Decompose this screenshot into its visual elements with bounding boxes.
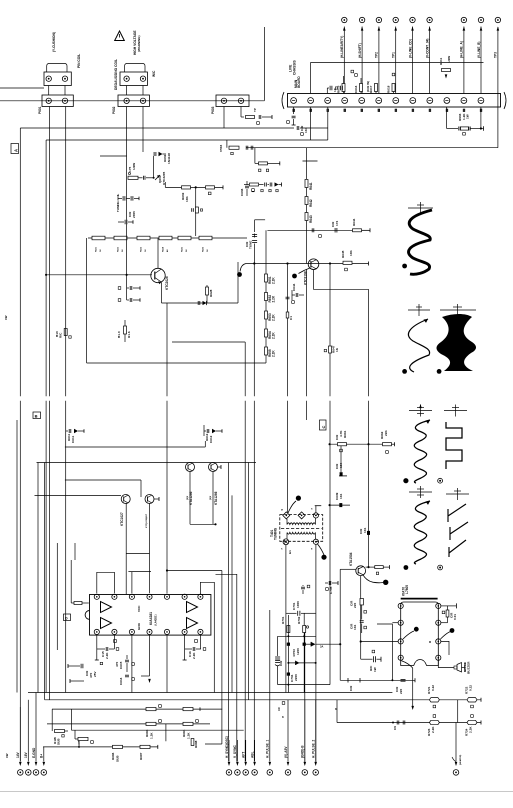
capacitor C649 — [334, 228, 336, 233]
svg-text:TUNE: TUNE — [249, 241, 253, 249]
capacitor C642 t-top — [255, 219, 266, 221]
capacitor C711 — [442, 611, 445, 614]
svg-text:KTC2026: KTC2026 — [165, 276, 169, 290]
svg-text:X: X — [281, 549, 283, 551]
op-amp triangle 1 — [101, 602, 112, 613]
svg-text:2.2K: 2.2K — [469, 726, 473, 733]
svg-text:0.22: 0.22 — [431, 685, 435, 691]
resistor R603 — [206, 186, 215, 189]
capacitor C902 — [292, 115, 296, 117]
wire x167 down — [166, 303, 168, 396]
capacitor C701 — [286, 612, 296, 614]
wire from bus147 to x306 — [306, 148, 308, 161]
resistor R643 — [305, 213, 308, 221]
svg-text:KTA1266: KTA1266 — [189, 491, 193, 505]
svg-text:470: 470 — [115, 662, 119, 667]
wire net y636.3 — [278, 635, 316, 637]
svg-text:2.2K: 2.2K — [431, 726, 435, 733]
svg-text:104: 104 — [363, 528, 367, 533]
svg-text:TUNING COIL: TUNING COIL — [116, 194, 120, 212]
resistor R724 — [467, 720, 477, 724]
capacitor C645 — [286, 296, 290, 298]
resistor R697 — [140, 745, 150, 748]
svg-text:1K: 1K — [100, 249, 102, 252]
resistor R616 — [360, 84, 363, 92]
vertical regulator IC701 — [401, 599, 439, 666]
wire loop right pin7 — [200, 582, 214, 692]
svg-text:R694: R694 — [182, 729, 186, 737]
svg-text:2.2K: 2.2K — [272, 314, 276, 321]
component row y184.5 — [244, 184, 249, 186]
wire long vertical x65.7 — [65, 107, 67, 397]
wire IC701 pin4 curve — [402, 661, 413, 668]
waveform W7 sawtooth — [448, 504, 468, 557]
resistor R652 — [265, 293, 268, 301]
capacitor C706 top — [301, 586, 305, 588]
IC601 bottom pin 12 — [164, 629, 169, 634]
svg-text:E-GND: E-GND — [32, 747, 36, 758]
wire vertical x57.3 — [56, 543, 58, 650]
wire q602 collector — [157, 238, 159, 268]
svg-text:1K: 1K — [207, 249, 209, 252]
svg-text:V503: V503 — [219, 144, 223, 152]
IC601 bottom pin 14 — [198, 629, 203, 634]
svg-text:R697: R697 — [139, 752, 143, 760]
svg-text:C606: C606 — [240, 188, 244, 196]
wire net y462.5 — [37, 462, 257, 464]
svg-text:2.2K: 2.2K — [272, 350, 276, 357]
terminal HEATER — [455, 723, 457, 762]
hook to dot — [240, 264, 246, 272]
svg-text:R621: R621 — [96, 246, 98, 252]
svg-text:R623: R623 — [141, 246, 143, 252]
wire q613 down — [125, 504, 127, 595]
strip pin 10 — [444, 98, 450, 104]
svg-text:C644: C644 — [292, 283, 296, 291]
waveform W5 square — [446, 422, 462, 469]
wire pin2 riser — [310, 62, 312, 93]
svg-text:TUNING: TUNING — [274, 527, 278, 540]
wire net y480 — [65, 479, 141, 481]
wire bus y692.5 — [28, 692, 392, 694]
waveform W6 sine — [414, 501, 430, 564]
resistor R722 — [467, 698, 477, 702]
IC601 bottom pin 11 — [147, 629, 152, 634]
capacitor C616 — [125, 674, 129, 676]
scope dot 3 — [437, 369, 442, 374]
svg-text:SUB: SUB — [116, 755, 120, 762]
wire x288 down — [287, 615, 289, 693]
svg-text:C: C — [321, 426, 326, 429]
terminal 14V — [16, 707, 23, 775]
svg-text:TP1: TP1 — [392, 52, 396, 58]
strip pin 12 — [478, 98, 484, 104]
curl to dot q604 — [299, 268, 311, 274]
junction squares — [287, 643, 290, 646]
scope marker 2 — [408, 309, 430, 311]
capacitor C601 — [296, 126, 298, 130]
boxed label C — [320, 420, 327, 430]
svg-text:H_PULSE_1: H_PULSE_1 — [266, 740, 270, 758]
wire vertical x38 — [37, 463, 39, 693]
terminal B+ — [40, 747, 47, 775]
scope marker 6 — [409, 491, 432, 493]
strip pin 8 — [410, 98, 416, 104]
resistor R625 — [178, 236, 191, 240]
wire vert x153.6 — [153, 156, 155, 178]
capacitor C643 pair — [252, 234, 257, 236]
transistor Q612 — [209, 463, 218, 472]
svg-text:2.2K: 2.2K — [192, 652, 196, 659]
resistor R691 — [146, 708, 156, 711]
svg-text:B+: B+ — [40, 754, 44, 758]
svg-text:C611: C611 — [71, 435, 75, 443]
wire q704 base — [340, 568, 356, 570]
svg-text:2K: 2K — [122, 249, 124, 252]
svg-text:1K: 1K — [145, 249, 147, 252]
label B pin marks — [114, 640, 117, 643]
wire x195.7 down — [195, 187, 197, 236]
svg-text:TP2: TP2 — [375, 52, 379, 58]
resistor R602 — [182, 186, 191, 189]
svg-text:C9: C9 — [393, 726, 397, 730]
svg-text:(V)-A5V: (V)-A5V — [284, 746, 288, 758]
wire bus y746.9 — [43, 746, 158, 748]
svg-text:R702: R702 — [297, 616, 301, 624]
connector P602 DEGAUSSING COIL — [118, 64, 149, 107]
capacitor C681 — [105, 647, 107, 651]
svg-text:25V: 25V — [93, 671, 97, 677]
svg-text:H_PULSE_2: H_PULSE_2 — [312, 740, 316, 758]
svg-text:R626: R626 — [203, 246, 205, 252]
wire long vertical x49.6 — [49, 107, 51, 397]
svg-text:W/C: W/C — [152, 70, 156, 77]
wire left col x86.6 — [86, 238, 88, 363]
transistor Q613 — [121, 495, 130, 504]
svg-text:( LA4282 ): ( LA4282 ) — [155, 614, 158, 626]
svg-text:1W: 1W — [5, 753, 9, 758]
resistor R661 — [338, 443, 347, 446]
svg-text:M: M — [281, 510, 283, 512]
wire main bus y=100.8 — [0, 100, 264, 102]
svg-text:CHASSIS: CHASSIS — [293, 60, 297, 75]
capacitor cluster C606 — [245, 185, 249, 187]
svg-text:(H-SHIFT): (H-SHIFT) — [358, 43, 362, 58]
wire stub y156 — [100, 155, 127, 157]
capacitor C668 — [367, 531, 369, 534]
wires terminals to strip — [343, 27, 345, 94]
resistor R630 on x65.7 — [64, 329, 67, 336]
svg-text:220: 220 — [353, 603, 357, 608]
svg-text:R641: R641 — [309, 182, 313, 190]
svg-text:2.2K: 2.2K — [272, 295, 276, 302]
resistor R642 — [305, 197, 308, 205]
svg-text:1.2K: 1.2K — [187, 732, 191, 739]
diode cluster D612 — [206, 429, 208, 433]
wire left drop from P602 — [142, 107, 144, 153]
terminal H_PULSE_1 — [266, 610, 273, 775]
svg-text:10K: 10K — [185, 196, 189, 202]
svg-text:(S)V: (S)V — [210, 495, 212, 500]
resistor R696 — [113, 745, 123, 748]
strip pin 11 — [461, 98, 467, 104]
strip pin 3 — [325, 98, 331, 104]
resistor R723 — [429, 720, 439, 724]
page edge line — [0, 791, 513, 793]
svg-text:(V-LINE_CD): (V-LINE_CD) — [408, 39, 412, 58]
svg-text:200V: 200V — [132, 210, 136, 218]
wire vertical x44.6 — [44, 463, 46, 700]
svg-text:R625: R625 — [182, 246, 184, 252]
svg-text:104: 104 — [353, 625, 357, 630]
t-cap cluster left of network — [392, 679, 415, 681]
resistor R704 — [375, 566, 384, 569]
capacitor C615 — [125, 659, 129, 661]
resistor R903 — [446, 107, 448, 129]
IC601 bottom pin 8 — [94, 629, 99, 634]
terminal (V)-A5V — [284, 700, 291, 775]
strip pin 7 — [393, 98, 399, 104]
capacitor cluster over strip — [329, 86, 331, 91]
resistor R611 — [442, 69, 451, 72]
wire y187.4 — [165, 186, 223, 188]
svg-text:(WARNING): (WARNING) — [137, 36, 141, 53]
waveform W4 sine — [414, 420, 430, 483]
wire t-top x306 — [303, 160, 318, 162]
svg-text:1W: 1W — [4, 315, 8, 320]
svg-text:C612: C612 — [209, 435, 213, 443]
diode cluster D611 — [68, 429, 70, 433]
svg-text:P602: P602 — [112, 106, 116, 114]
wire bus y730.2 — [72, 729, 244, 731]
wire right edge drop — [497, 27, 499, 148]
connector P601 PIN COIL — [42, 64, 73, 107]
wire ic loop top — [97, 572, 115, 593]
boxed label B — [33, 412, 41, 419]
svg-text:R1.6: R1.6 — [127, 331, 131, 338]
capacitor C617 left cluster — [67, 664, 69, 668]
transistor Q601 — [155, 175, 160, 180]
resistor R624 — [159, 236, 172, 240]
capacitor C613 — [129, 298, 131, 302]
wire q613 q614 merge — [126, 553, 150, 555]
svg-text:172: 172 — [335, 221, 339, 226]
terminal AFT — [242, 740, 249, 775]
svg-text:2.2K: 2.2K — [272, 332, 276, 339]
svg-text:104: 104 — [339, 494, 343, 499]
wire bus y236 — [88, 237, 247, 239]
capacitor C705 — [328, 581, 330, 585]
svg-text:TP: TP — [253, 108, 257, 112]
terminal H_SYNC(OSC) — [225, 736, 232, 775]
svg-text:ABL: ABL — [250, 751, 254, 758]
svg-text:DEGAUSSING COIL: DEGAUSSING COIL — [114, 59, 118, 90]
capacitor C605 — [245, 146, 247, 150]
svg-text:H_SYNC(OSC): H_SYNC(OSC) — [225, 736, 229, 758]
wire long vertical x46.1 — [45, 140, 47, 396]
top terminal row — [340, 17, 500, 58]
svg-text:KTC(LOW)027: KTC(LOW)027 — [146, 513, 148, 528]
wire IC701 left net — [377, 624, 392, 680]
wire stub — [343, 92, 345, 94]
op-amp triangle 3 — [187, 602, 198, 613]
resistor R702 — [303, 626, 306, 633]
resistor R622 — [114, 236, 127, 240]
svg-text:C1: C1 — [289, 316, 293, 320]
svg-text:VCC: VCC — [137, 605, 141, 612]
svg-text:1200: 1200 — [296, 648, 300, 655]
resistor chain x266 — [265, 230, 267, 274]
connector P603 — [216, 95, 249, 107]
scope marker 4 — [409, 410, 432, 412]
t-cap widget left — [347, 678, 349, 683]
wire bus y699 right end — [480, 698, 482, 702]
capacitor C641 — [311, 228, 313, 232]
resistor R694b loop — [51, 709, 53, 731]
wire riser x264.4 — [263, 27, 265, 101]
diode D602 — [153, 152, 155, 156]
transistor Q611 — [186, 463, 195, 472]
waveform W3 filled — [437, 314, 477, 371]
wire vert x125 — [126, 107, 128, 237]
resistor R662 — [383, 443, 392, 446]
wire riser to strip pin — [327, 107, 329, 140]
resistor R721 — [429, 698, 439, 702]
transistor Q602 — [151, 268, 165, 282]
IC701 right pin 7 — [436, 639, 441, 644]
svg-text:KTC1027: KTC1027 — [120, 512, 124, 526]
resistor R615 — [342, 84, 345, 92]
resistor R606 — [255, 162, 259, 164]
wire IC701 pin5 right T — [441, 605, 456, 607]
scope dot 1 — [402, 264, 407, 269]
IC701 right pin 6 — [436, 620, 441, 625]
svg-text:220: 220 — [399, 689, 403, 694]
diode D701 — [304, 643, 311, 645]
transistor Q604 — [308, 259, 319, 270]
svg-text:R661: R661 — [343, 430, 347, 438]
svg-text:(Y-CUSHION): (Y-CUSHION) — [52, 32, 56, 52]
svg-text:R693: R693 — [145, 729, 149, 737]
wire q704 down — [360, 576, 362, 642]
capacitor C703 — [277, 636, 279, 656]
scope dot 5 — [438, 478, 443, 483]
resistor R617 — [375, 84, 378, 92]
resistor R631 — [124, 326, 127, 334]
capacitor C612 — [129, 286, 131, 290]
wire q602 base long — [46, 274, 152, 276]
waveform W2 sine — [408, 319, 429, 372]
wire loop x222 — [205, 743, 222, 745]
scope dot 6 — [404, 565, 409, 570]
svg-text:(C/R W): (C/R W) — [366, 81, 370, 92]
capacitor C604 — [258, 115, 260, 119]
svg-text:(H-LINE_A): (H-LINE_A) — [460, 41, 464, 58]
scope dot 4 — [403, 478, 408, 483]
wire col x253 — [253, 264, 255, 397]
svg-text:10K: 10K — [349, 250, 353, 256]
svg-text:22K: 22K — [384, 430, 388, 436]
terminal V_SYNC — [233, 740, 240, 775]
IC701 left pin 2 — [398, 620, 403, 625]
svg-text:R622: R622 — [118, 246, 120, 252]
svg-text:R642: R642 — [309, 199, 313, 207]
wire net y495.4 — [35, 494, 122, 496]
wire pin2 down-left — [310, 107, 312, 140]
wire x75 stub — [74, 543, 76, 560]
svg-text:M: M — [429, 641, 431, 644]
wire p603 down — [240, 107, 242, 118]
capacitor C609 — [124, 220, 126, 225]
svg-text:1W: 1W — [466, 114, 470, 119]
junction dots — [286, 262, 288, 264]
svg-text:(V-LINE_B): (V-LINE_B) — [477, 42, 481, 58]
svg-text:K: K — [282, 715, 284, 719]
wire bus y=140 — [46, 139, 328, 141]
transformer T401 — [280, 496, 327, 560]
wire col x304.8 lower — [304, 631, 306, 763]
svg-text:R624: R624 — [162, 246, 165, 252]
svg-text:C616: C616 — [354, 85, 358, 93]
wire t401 right down — [315, 544, 317, 763]
svg-text:C/R: C/R — [349, 685, 353, 691]
IC701 left pin 1 — [398, 603, 403, 608]
resistor R626 — [199, 236, 212, 240]
cluster y295 left — [295, 293, 297, 297]
capacitor C704 — [287, 673, 290, 676]
strip pin 2 — [308, 98, 314, 104]
waveform W1 thick sine — [409, 210, 432, 274]
svg-text:S: S — [311, 509, 313, 511]
wire q602 emitter — [161, 282, 163, 303]
capacitor C682 — [192, 647, 194, 651]
wire pin1 down — [293, 107, 295, 114]
svg-text:P601: P601 — [38, 106, 42, 114]
wire x126 down — [126, 236, 128, 300]
wire p603 pin1 down — [223, 107, 225, 129]
svg-text:(V-CONT_04): (V-CONT_04) — [425, 39, 429, 58]
resistor R698 — [191, 739, 194, 746]
wire col x287 — [287, 264, 289, 397]
wire x457 link — [457, 700, 459, 723]
scope dot 2 — [402, 369, 407, 374]
strip pin 1 — [291, 98, 297, 104]
wire x232 long — [231, 495, 233, 692]
svg-text:0.22: 0.22 — [469, 685, 473, 691]
resistor R609 — [195, 207, 198, 213]
capacitor C617 — [351, 70, 354, 73]
wire q604 emitter path — [314, 270, 369, 290]
IC601 top pin 1 — [94, 594, 99, 599]
wire x304 mid — [303, 633, 305, 693]
resistor R644 — [353, 229, 362, 232]
boxed label A — [11, 144, 19, 154]
scope marker 1 — [408, 207, 433, 209]
svg-text:BOARD: BOARD — [297, 76, 301, 88]
svg-text:KTC3198: KTC3198 — [304, 271, 308, 285]
wire net y303 — [162, 302, 238, 304]
capacitor C664 — [330, 504, 350, 506]
svg-text:1N4148: 1N4148 — [167, 153, 171, 164]
svg-text:L7805: L7805 — [405, 585, 409, 594]
transistor Q704 — [356, 566, 366, 576]
svg-text:16V: 16V — [24, 751, 28, 758]
svg-text:1K: 1K — [335, 347, 339, 352]
svg-text:104: 104 — [339, 463, 343, 468]
resistor R651 — [265, 274, 268, 282]
svg-text:1.2K: 1.2K — [150, 732, 154, 739]
capacitor C608 — [122, 196, 124, 201]
